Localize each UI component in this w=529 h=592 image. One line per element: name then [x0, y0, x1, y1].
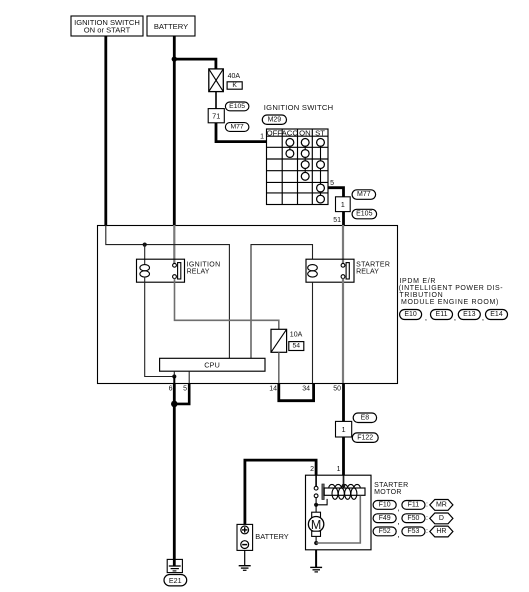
motor M [308, 505, 323, 543]
svg-text:F11: F11 [408, 502, 420, 509]
svg-text:51: 51 [333, 217, 341, 224]
internal wire: pin 51 to starter relay contact [342, 225, 344, 264]
internal wire: contact to motor junction [315, 498, 317, 505]
junction pins 5/6 [171, 401, 178, 408]
fuse number box 54 [289, 342, 304, 351]
contact chain ST column [317, 139, 325, 204]
label IPDM E/R [399, 278, 503, 306]
svg-text:HR: HR [436, 528, 446, 535]
svg-text:40A: 40A [228, 73, 241, 80]
svg-text:,: , [454, 312, 456, 322]
internal wire: ignition relay coil return [145, 277, 175, 377]
svg-text:F122: F122 [357, 434, 373, 441]
connector oval F122 [352, 433, 378, 443]
label IGNITION RELAY [187, 261, 221, 275]
connector oval F50 [397, 514, 425, 526]
svg-text:34: 34 [302, 386, 310, 393]
svg-text:6: 6 [169, 386, 173, 393]
svg-text:1: 1 [341, 200, 345, 209]
svg-text::: : [426, 515, 428, 522]
svg-text:F49: F49 [379, 515, 391, 522]
wire battery to starter motor pin 2 [245, 460, 316, 524]
connector oval M29 [262, 115, 286, 124]
connector oval F53 [397, 527, 425, 539]
svg-text:,: , [482, 312, 484, 322]
starter solenoid coil [324, 484, 365, 499]
junction battery / fuse tap [172, 56, 177, 61]
value label 10A [290, 332, 303, 339]
internal wire: ignition relay contact to 10A fuse [175, 279, 279, 330]
connector oval E8 [353, 413, 376, 423]
internal wire: starter relay contact to pin 50 [342, 279, 344, 384]
label BATTERY (bottom) [255, 532, 288, 541]
contact chain ACC column [286, 139, 294, 158]
ground starter motor [310, 567, 322, 572]
wire fuse tap [174, 59, 216, 69]
fuse 10A (54) [271, 329, 287, 352]
svg-text:2: 2 [310, 466, 314, 473]
label STARTER MOTOR [374, 482, 408, 496]
pin label 50 [333, 386, 341, 393]
svg-text:CPU: CPU [204, 361, 220, 370]
svg-text:F53: F53 [407, 528, 419, 535]
contact chain ON column [301, 139, 309, 181]
svg-text:5: 5 [183, 386, 187, 393]
IPDM E/R box [98, 226, 398, 384]
pin label 1 (starter) [337, 466, 341, 473]
svg-text:BATTERY: BATTERY [255, 532, 288, 541]
svg-text:71: 71 [212, 112, 220, 121]
svg-text:1: 1 [337, 466, 341, 473]
svg-text:IGNITION: IGNITION [187, 261, 221, 268]
internal link contact to plunger [316, 499, 327, 505]
svg-text:TRIBUTION: TRIBUTION [399, 292, 443, 299]
wire pin 5 joins pin 6 [174, 383, 189, 404]
junction ignition relay coil tap [143, 243, 147, 247]
svg-text:,: , [397, 503, 399, 513]
ignition relay [137, 259, 185, 282]
internal wire: ignition feed bus [106, 225, 230, 358]
pin label 5 [330, 180, 334, 187]
connector oval E21 [164, 575, 187, 586]
svg-text:M: M [311, 518, 321, 532]
pin label 51 [333, 217, 341, 224]
svg-text:10A: 10A [290, 332, 303, 339]
svg-text:OFF: OFF [267, 128, 283, 137]
label STARTER RELAY [356, 261, 390, 275]
wire ignition-switch feed down to IPDM [104, 36, 107, 225]
internal wire: pin 2 to contact [315, 475, 317, 486]
svg-text:MR: MR [436, 502, 447, 509]
svg-text:MOTOR: MOTOR [374, 489, 402, 496]
svg-text:ON: ON [299, 128, 311, 137]
svg-text:F10: F10 [379, 502, 391, 509]
wire pin 14 to pin 34 jumper [279, 383, 314, 401]
internal wire: 10A fuse to pin 14 [278, 352, 280, 383]
svg-text:M77: M77 [230, 124, 243, 131]
svg-text:1: 1 [342, 425, 346, 434]
starter solenoid plunger [322, 484, 324, 500]
svg-text:E8: E8 [361, 414, 370, 421]
connector oval M77 (right) [352, 190, 376, 200]
connector box pin 1 (E8/F122) [336, 421, 352, 437]
pin label 5 [183, 386, 187, 393]
svg-text:F50: F50 [407, 515, 419, 522]
ground E21 box [167, 559, 182, 572]
svg-text::: : [426, 502, 428, 509]
connector oval F10 [373, 501, 396, 510]
svg-text:ST: ST [315, 128, 325, 137]
junction motor return [314, 541, 318, 545]
svg-text:E11: E11 [436, 311, 448, 318]
svg-text:E10: E10 [404, 311, 417, 318]
connector oval F11 [397, 501, 425, 513]
connector oval E13 [454, 310, 481, 323]
connector oval E10 [400, 310, 422, 320]
svg-text:ACC: ACC [282, 128, 299, 137]
svg-text:1: 1 [260, 134, 264, 141]
svg-text:,: , [397, 529, 399, 539]
svg-text:E105: E105 [356, 211, 372, 218]
svg-text:RELAY: RELAY [187, 269, 210, 276]
svg-text:RELAY: RELAY [356, 269, 379, 276]
pin label 6 [169, 386, 173, 393]
svg-text:ON or START: ON or START [84, 26, 131, 35]
internal wire: starter relay coil return to pin 34 [312, 282, 314, 383]
connector oval F52 [373, 527, 396, 536]
fuse 40A (fusible link K) [209, 69, 224, 92]
internal wire: CPU to starter relay coil [251, 245, 313, 359]
junction motor node [314, 503, 318, 507]
connector box pin 1 (M77/E105) [336, 197, 351, 212]
svg-text:14: 14 [269, 386, 277, 393]
internal wire: CPU ground pin [173, 371, 175, 376]
junction CPU/coil ground [172, 374, 176, 378]
svg-text:5: 5 [330, 180, 334, 187]
battery (bottom) [237, 524, 253, 550]
svg-text:IPDM E/R: IPDM E/R [399, 278, 436, 285]
svg-text:(INTELLIGENT POWER DIS-: (INTELLIGENT POWER DIS- [399, 285, 503, 292]
svg-text:STARTER: STARTER [374, 482, 408, 489]
internal wire: solenoid return [316, 496, 360, 543]
svg-text:E105: E105 [229, 103, 245, 110]
internal wire: coil tap down [144, 245, 146, 265]
internal wire: battery feed to ignition relay contact [173, 225, 175, 264]
starter motor box [306, 475, 372, 550]
wire starter motor to ground [315, 550, 317, 568]
fuse letter box K [227, 82, 242, 89]
wire pin 50 down to connector [342, 383, 345, 421]
svg-text:D: D [439, 515, 444, 522]
svg-text:F52: F52 [379, 528, 391, 535]
svg-text:BATTERY: BATTERY [154, 22, 188, 31]
connector oval E14 [482, 310, 508, 323]
svg-text:E21: E21 [169, 576, 182, 585]
svg-text:K: K [232, 82, 237, 89]
wire connector to IPDM pin 51 [342, 212, 345, 225]
value label 40A [228, 73, 241, 80]
starter relay [306, 259, 354, 282]
connector oval E105 [225, 102, 249, 111]
wire connector to starter motor pin 1 [342, 437, 345, 486]
code hexagon D [426, 513, 453, 524]
connector oval E105 (right) [352, 209, 377, 219]
svg-text:M77: M77 [357, 191, 371, 198]
pin label 14 [269, 386, 277, 393]
starter contact terminals [314, 486, 318, 497]
svg-text::: : [426, 528, 428, 535]
svg-text:E14: E14 [490, 311, 503, 318]
wire battery feed down to IPDM [173, 36, 176, 225]
internal wire: ground to pin 6 [173, 377, 175, 384]
power source box IGNITION SWITCH ON or START [71, 16, 143, 36]
svg-text:IGNITION SWITCH: IGNITION SWITCH [264, 103, 334, 112]
connector oval M77 [225, 123, 249, 132]
connector oval F49 [373, 514, 396, 523]
svg-text:,: , [425, 312, 427, 322]
wire pin 6 to ground junction [173, 383, 176, 404]
code hexagon HR [426, 526, 453, 537]
svg-text:,: , [397, 516, 399, 526]
ground battery [239, 566, 251, 571]
pin label 1 (ignition switch input) [260, 134, 264, 141]
wire battery to ground [244, 550, 246, 565]
connector box pin 71 [208, 109, 224, 123]
wire fuse to connector 71 [215, 92, 217, 109]
code hexagon MR [426, 500, 453, 511]
svg-text:M29: M29 [268, 116, 282, 123]
wire ignition switch ST output pin 5 [328, 188, 344, 197]
wire connector 71 to ignition switch pin 1 [216, 123, 267, 142]
connector oval E11 [425, 310, 453, 323]
power source box BATTERY [147, 16, 195, 36]
CPU box [160, 358, 265, 371]
pin label 2 (starter) [310, 466, 314, 473]
svg-text:E13: E13 [463, 311, 476, 318]
pin label 34 [302, 386, 310, 393]
svg-text:STARTER: STARTER [356, 261, 390, 268]
svg-text:50: 50 [333, 386, 341, 393]
svg-text:MODULE ENGINE ROOM): MODULE ENGINE ROOM) [401, 299, 499, 306]
ignition switch contact table M29 [267, 128, 329, 204]
junction solenoid coil / pin 1 [342, 484, 346, 488]
component label IGNITION SWITCH [264, 103, 334, 112]
wire pins 5/6 to ground E21 [173, 404, 176, 566]
internal wire: CPU pin 5 [188, 371, 190, 383]
svg-text:54: 54 [293, 343, 301, 350]
